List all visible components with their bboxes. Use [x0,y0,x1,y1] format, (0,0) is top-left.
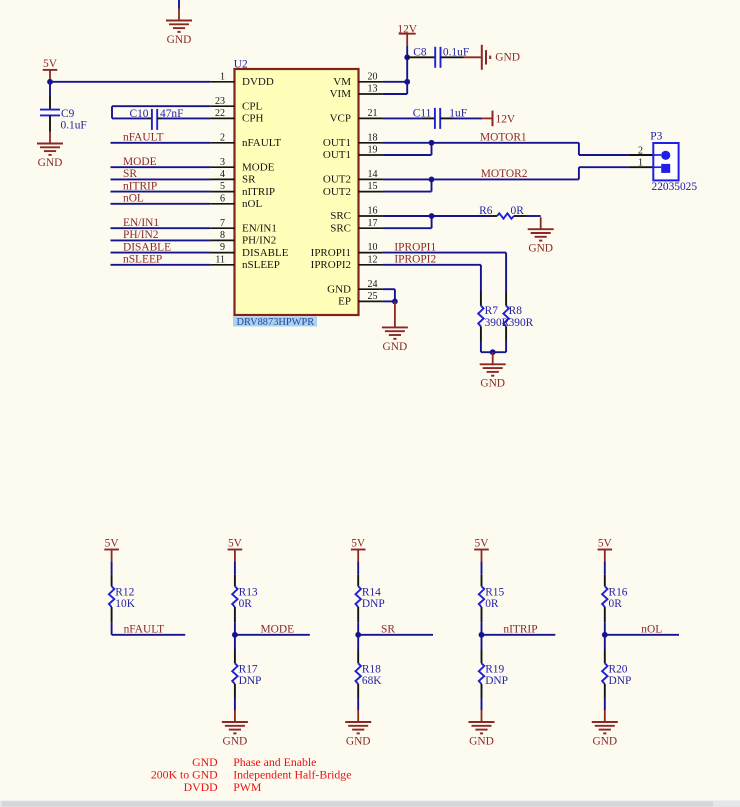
svg-text:MODE: MODE [123,156,157,168]
svg-text:C10: C10 [130,108,149,120]
svg-text:25: 25 [368,291,378,302]
svg-text:22035025: 22035025 [652,181,698,193]
svg-text:GND: GND [167,34,192,46]
svg-text:SR: SR [123,168,137,180]
svg-text:8: 8 [220,230,225,241]
svg-text:390R: 390R [485,317,510,329]
svg-text:C11: C11 [413,107,432,119]
svg-text:OUT1: OUT1 [323,149,351,161]
svg-text:R15: R15 [485,586,504,598]
svg-text:GND: GND [469,735,494,747]
svg-text:0R: 0R [239,598,253,610]
svg-text:PWM: PWM [233,780,262,794]
svg-text:DNP: DNP [239,675,262,687]
svg-text:C8: C8 [413,46,427,58]
svg-text:0.1uF: 0.1uF [61,120,87,132]
svg-text:GND: GND [480,378,505,390]
svg-text:10K: 10K [115,598,135,610]
svg-text:nITRIP: nITRIP [503,624,537,636]
svg-text:DISABLE: DISABLE [123,241,171,253]
svg-text:OUT1: OUT1 [323,137,351,149]
svg-text:GND: GND [346,735,371,747]
svg-text:17: 17 [368,218,378,229]
svg-text:16: 16 [368,206,378,217]
svg-text:EN/IN1: EN/IN1 [242,222,277,234]
svg-text:SRC: SRC [330,222,351,234]
svg-text:SR: SR [242,174,256,186]
svg-text:0R: 0R [485,598,499,610]
svg-text:1: 1 [638,158,643,169]
svg-text:12V: 12V [496,113,516,125]
svg-text:2: 2 [638,146,643,157]
svg-text:IPROPI2: IPROPI2 [394,254,436,266]
svg-text:5V: 5V [43,58,58,70]
svg-text:11: 11 [215,254,225,265]
svg-text:5V: 5V [105,538,120,550]
svg-text:U2: U2 [234,58,248,70]
svg-text:7: 7 [220,218,225,229]
svg-text:DISABLE: DISABLE [242,247,289,259]
svg-text:OUT2: OUT2 [323,174,351,186]
svg-text:R19: R19 [485,663,504,675]
svg-text:VIM: VIM [330,88,352,100]
svg-text:R7: R7 [485,305,499,317]
svg-text:nITRIP: nITRIP [123,180,157,192]
svg-text:IPROPI1: IPROPI1 [311,247,351,259]
svg-text:2: 2 [220,132,225,143]
svg-text:SR: SR [381,624,395,636]
svg-text:DNP: DNP [485,675,508,687]
svg-text:nFAULT: nFAULT [124,624,165,636]
svg-text:1uF: 1uF [449,107,467,119]
svg-text:nFAULT: nFAULT [123,132,164,144]
svg-text:0.1uF: 0.1uF [443,46,469,58]
svg-text:5V: 5V [598,538,613,550]
svg-text:GND: GND [383,341,408,353]
svg-text:R8: R8 [509,305,523,317]
svg-text:9: 9 [220,242,225,253]
svg-text:PH/IN2: PH/IN2 [242,235,276,247]
svg-text:5V: 5V [351,538,366,550]
svg-text:MODE: MODE [261,624,295,636]
svg-text:R6: R6 [479,205,493,217]
svg-text:R20: R20 [609,663,628,675]
svg-text:23: 23 [215,96,225,107]
svg-text:VCP: VCP [330,113,351,125]
svg-text:22: 22 [215,108,225,119]
svg-text:18: 18 [368,132,378,143]
svg-text:PH/IN2: PH/IN2 [123,229,159,241]
svg-text:390R: 390R [509,317,534,329]
svg-text:R12: R12 [115,586,134,598]
svg-text:nITRIP: nITRIP [242,186,275,198]
svg-text:DNP: DNP [362,598,385,610]
svg-text:IPROPI2: IPROPI2 [311,259,351,271]
svg-text:IPROPI1: IPROPI1 [394,241,436,253]
svg-text:C9: C9 [61,108,75,120]
svg-text:GND: GND [327,283,351,295]
svg-text:14: 14 [368,169,378,180]
svg-text:MOTOR1: MOTOR1 [480,132,527,144]
svg-text:CPH: CPH [242,113,263,125]
svg-text:DNP: DNP [609,675,632,687]
svg-text:5V: 5V [475,538,490,550]
svg-text:68K: 68K [362,675,382,687]
svg-text:MOTOR2: MOTOR2 [481,168,528,180]
svg-text:nFAULT: nFAULT [242,137,281,149]
svg-text:DVDD: DVDD [242,76,274,88]
svg-text:5: 5 [220,181,225,192]
svg-text:19: 19 [368,145,378,156]
svg-text:R14: R14 [362,586,381,598]
svg-text:13: 13 [368,84,378,95]
svg-text:EN/IN1: EN/IN1 [123,217,159,229]
svg-text:6: 6 [220,193,225,204]
svg-text:nSLEEP: nSLEEP [242,259,280,271]
svg-text:DRV8873HPWPR: DRV8873HPWPR [237,317,315,328]
svg-text:5V: 5V [228,538,243,550]
svg-text:R13: R13 [239,586,258,598]
svg-text:12: 12 [368,254,378,265]
svg-text:R17: R17 [239,663,258,675]
svg-text:20: 20 [368,71,378,82]
svg-text:R16: R16 [609,586,628,598]
svg-text:CPL: CPL [242,100,262,112]
svg-text:OUT2: OUT2 [323,186,351,198]
svg-text:nOL: nOL [242,198,262,210]
svg-text:DVDD: DVDD [184,780,219,794]
svg-text:1: 1 [220,71,225,82]
svg-text:0R: 0R [511,205,525,217]
svg-text:MODE: MODE [242,161,275,173]
svg-text:GND: GND [495,52,520,64]
svg-text:21: 21 [368,108,378,119]
svg-text:15: 15 [368,181,378,192]
svg-text:10: 10 [368,242,378,253]
svg-text:P3: P3 [650,131,662,143]
svg-text:GND: GND [592,735,617,747]
svg-text:GND: GND [38,157,63,169]
svg-text:nOL: nOL [641,624,662,636]
svg-text:24: 24 [368,279,378,290]
svg-text:47nF: 47nF [160,108,183,120]
svg-text:3: 3 [220,157,225,168]
svg-text:GND: GND [528,243,553,255]
svg-text:4: 4 [220,169,225,180]
svg-text:0R: 0R [609,598,623,610]
svg-text:EP: EP [338,296,351,308]
svg-text:nSLEEP: nSLEEP [123,254,162,266]
svg-text:SRC: SRC [330,210,351,222]
svg-text:R18: R18 [362,663,381,675]
svg-text:nOL: nOL [123,193,144,205]
svg-text:VM: VM [333,76,351,88]
svg-text:GND: GND [223,735,248,747]
